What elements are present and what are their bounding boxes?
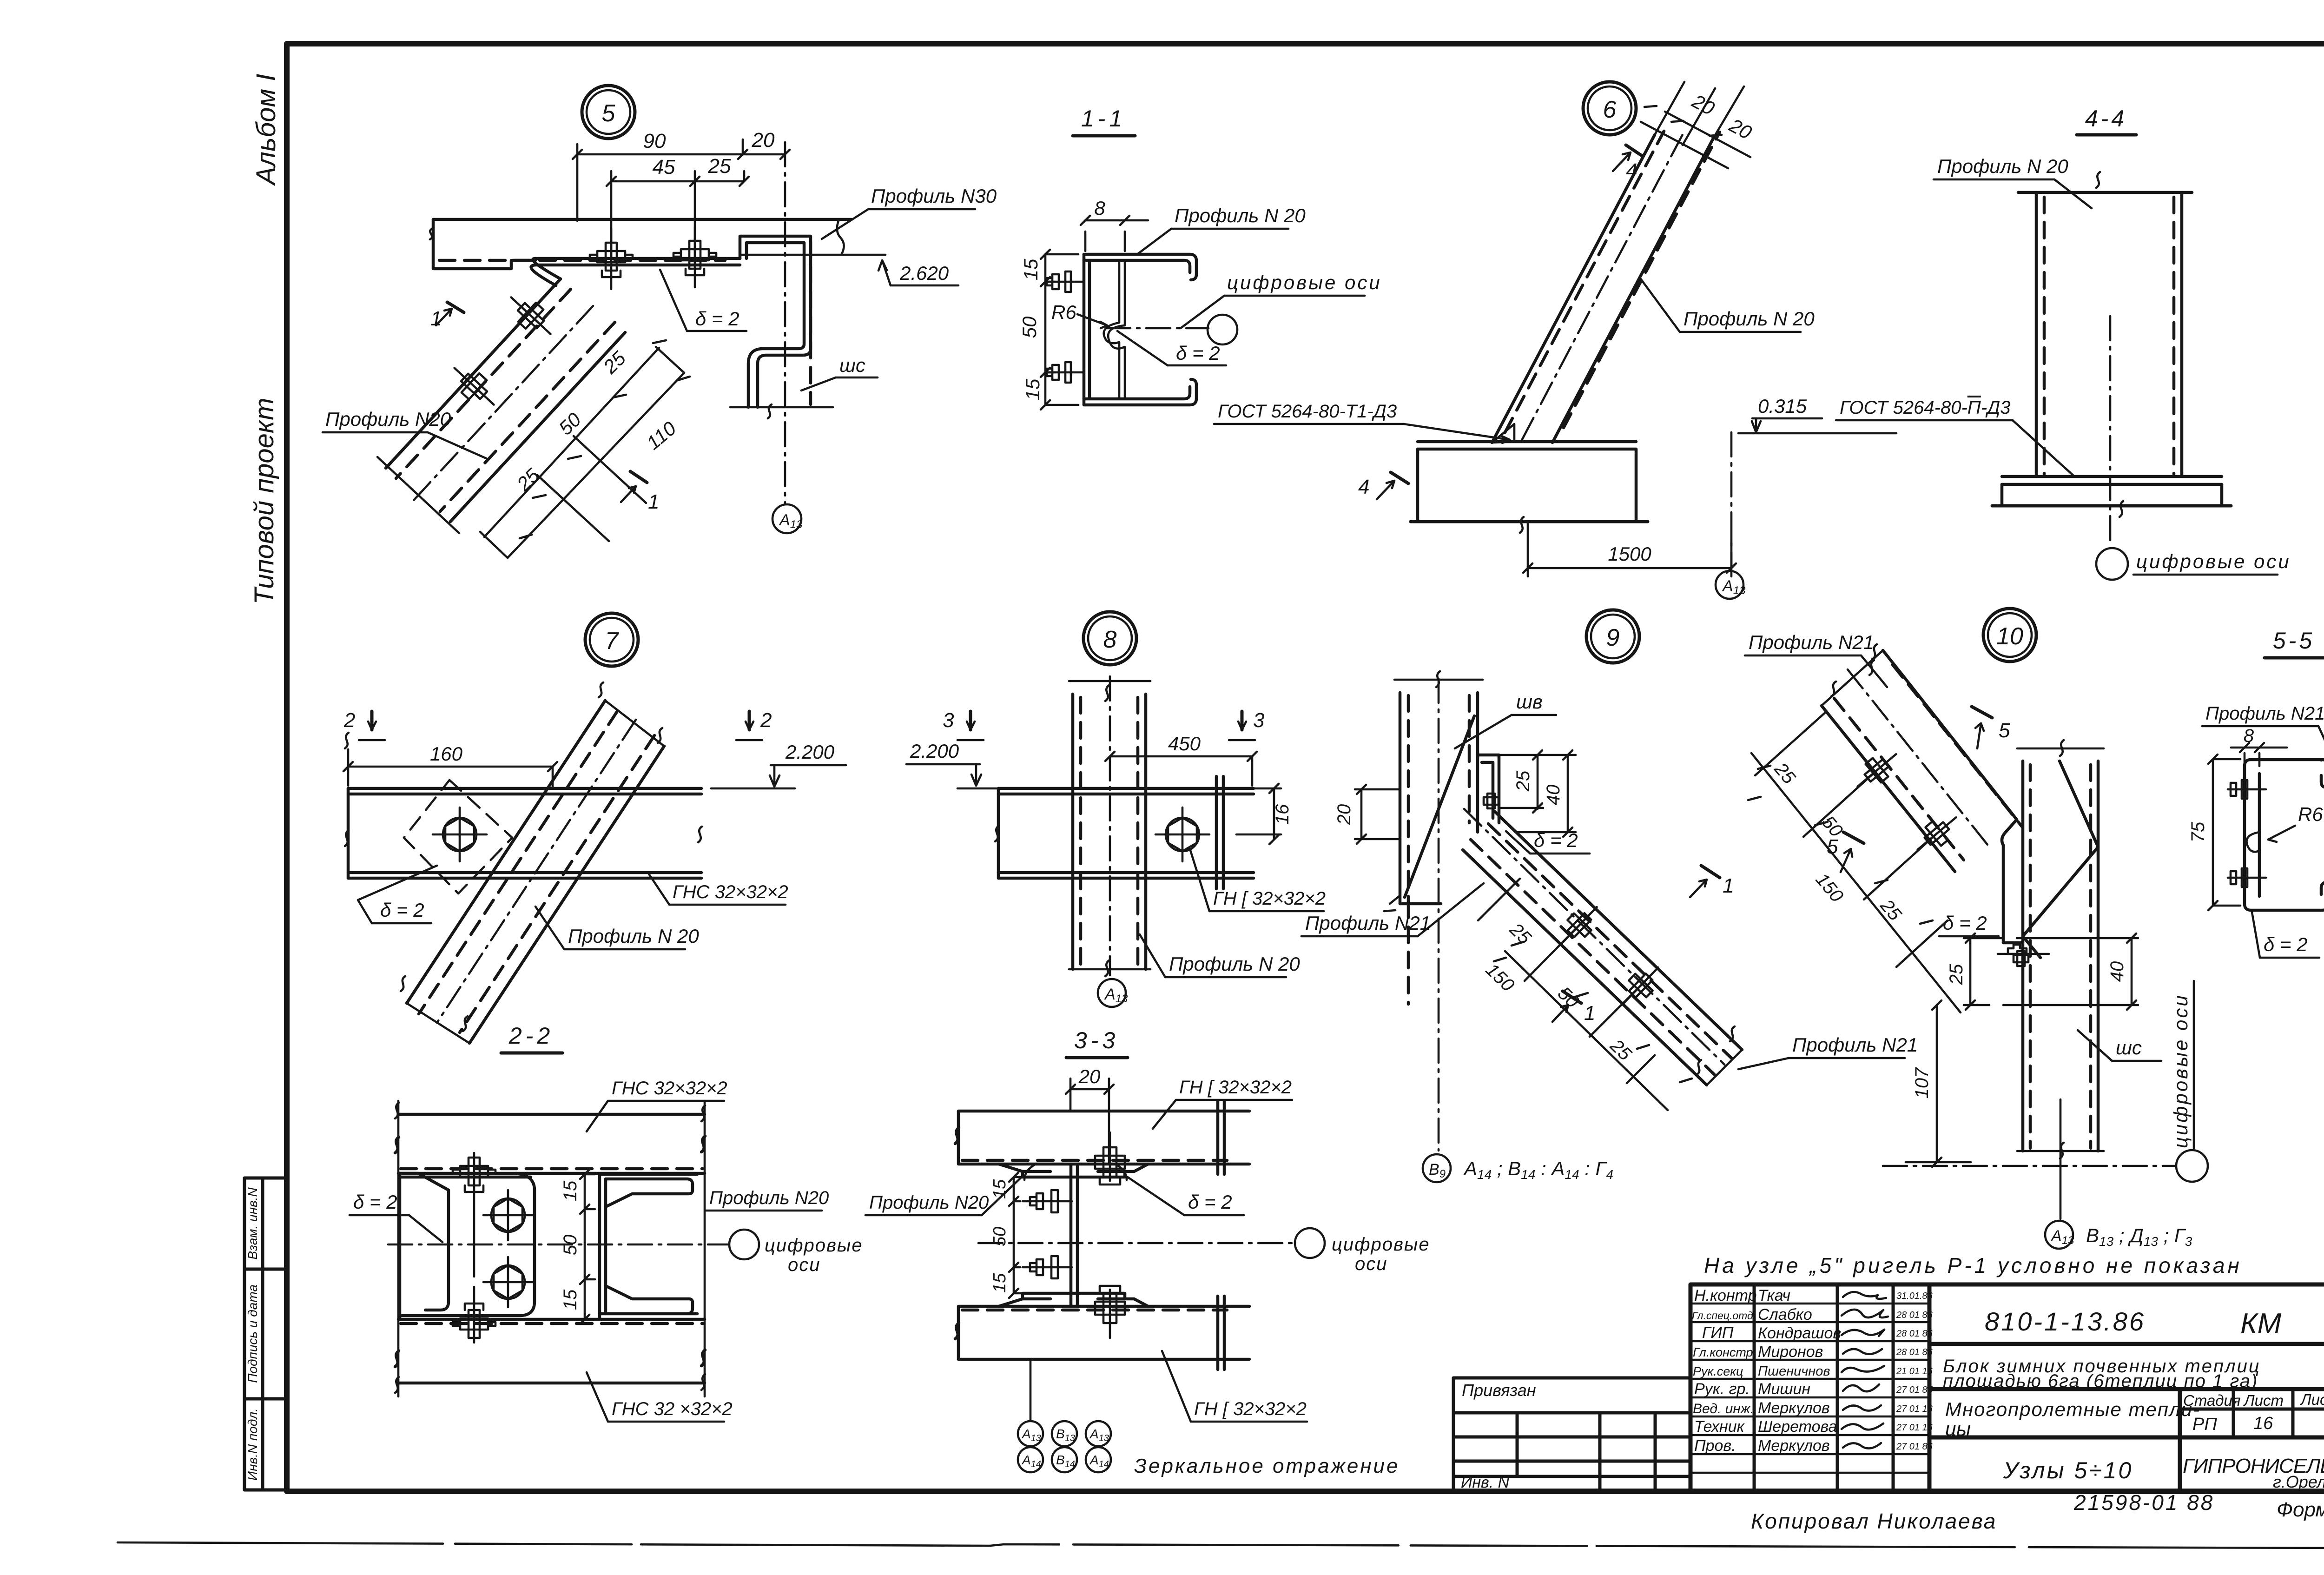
svg-text:Альбом I: Альбом I (251, 74, 281, 186)
svg-text:15: 15 (1022, 378, 1043, 400)
svg-text:3-3: 3-3 (1074, 1027, 1119, 1053)
svg-text:1: 1 (1584, 1002, 1595, 1025)
svg-text:5-5: 5-5 (2273, 628, 2315, 654)
svg-text:9: 9 (1606, 624, 1620, 651)
svg-text:16: 16 (2253, 1414, 2273, 1433)
inclined profile N20 crossing (detail7) (401, 682, 664, 1043)
section mark 3 left (957, 711, 984, 740)
svg-text:810-1-13.86: 810-1-13.86 (1985, 1307, 2146, 1336)
axis line and circle A13 (detail5) (784, 142, 786, 503)
svg-text:15: 15 (560, 1289, 581, 1310)
horizontal axis + plain circle (detail10) (1883, 1165, 2174, 1167)
svg-text:1-1: 1-1 (1081, 106, 1126, 132)
svg-text:Профиль N30: Профиль N30 (871, 185, 997, 207)
plan bolts top/bottom (3-3) (1095, 1132, 1125, 1185)
svg-text:КМ: КМ (2240, 1308, 2282, 1340)
svg-text:50: 50 (1018, 316, 1040, 338)
svg-text:Взам. инв.N: Взам. инв.N (245, 1187, 260, 1260)
svg-text:2.200: 2.200 (910, 740, 959, 762)
inclined strut profile N20 (377, 279, 625, 533)
svg-text:25: 25 (1946, 964, 1967, 985)
section mark 5 flags (detail10) (1972, 707, 1992, 748)
dim 75 (5-5) (2208, 754, 2240, 910)
svg-text:Мишин: Мишин (1758, 1380, 1810, 1398)
svg-text:Кондрашов: Кондрашов (1758, 1324, 1841, 1342)
svg-text:27 01 86: 27 01 86 (1896, 1442, 1933, 1452)
bottom member (2-2) (395, 1114, 705, 1383)
svg-text:27 01 16: 27 01 16 (1896, 1423, 1933, 1433)
dim 20 (detail9) (1355, 785, 1400, 844)
stadia table (2180, 1389, 2324, 1437)
svg-text:шс: шс (2116, 1037, 2142, 1059)
hex bolts (2-2) (483, 1190, 533, 1307)
middle I assembly (3-3) (999, 1164, 1148, 1306)
svg-text:δ = 2: δ = 2 (2264, 933, 2308, 955)
svg-text:Профиль N 20: Профиль N 20 (1684, 308, 1815, 330)
plan bolts (2-2) (453, 1153, 495, 1277)
bolt upper (1-1) (1047, 271, 1084, 292)
bracket plate at column (detail9) (1478, 755, 1499, 823)
svg-text:2-2: 2-2 (508, 1023, 554, 1049)
section mark 2 right (736, 711, 762, 740)
weld triangle at strut base (1492, 424, 1514, 443)
svg-text:20: 20 (1334, 804, 1354, 826)
bolt at bracket (1484, 794, 1499, 808)
svg-text:δ = 2: δ = 2 (1176, 342, 1220, 364)
svg-text:Пров.: Пров. (1694, 1437, 1736, 1455)
svg-text:5: 5 (1827, 835, 1838, 858)
section titles (501, 106, 2324, 1058)
svg-text:Меркулов: Меркулов (1758, 1399, 1830, 1417)
node circle 7 (585, 613, 638, 666)
svg-text:Копировал Николаева: Копировал Николаева (1751, 1509, 1997, 1533)
svg-text:Листов: Листов (2300, 1391, 2324, 1408)
svg-text:1500: 1500 (1608, 543, 1651, 565)
svg-text:3: 3 (1253, 709, 1265, 732)
svg-text:цифровые оси: цифровые оси (1227, 271, 1382, 293)
column profile N20 (4-4) (2018, 172, 2192, 476)
node circle 10 (1983, 609, 2036, 662)
channel профиль N21 (5-5 section) (2245, 760, 2324, 910)
svg-text:Шеретова: Шеретова (1758, 1418, 1837, 1436)
svg-text:Профиль N 20: Профиль N 20 (568, 925, 699, 947)
title block (1690, 1284, 2324, 1491)
svg-text:2.620: 2.620 (899, 262, 949, 284)
svg-text:Рук. гр.: Рук. гр. (1694, 1380, 1750, 1398)
svg-text:δ = 2: δ = 2 (1188, 1191, 1232, 1213)
dimension 8 (1081, 216, 1148, 251)
dim chain 25/50/150/25 (detail10) (1748, 711, 1961, 1012)
svg-text:25: 25 (708, 155, 731, 178)
section mark 1 upper (436, 302, 464, 325)
svg-text:шв: шв (1516, 691, 1543, 713)
left stamp boxes (244, 1178, 286, 1490)
dims 25 40 107 (detail10) (1906, 933, 2138, 1167)
svg-text:цы: цы (1945, 1418, 1971, 1440)
node circle 6 (1583, 82, 1636, 135)
svg-text:15: 15 (990, 1273, 1010, 1293)
bent plate S-curve into strut (531, 258, 561, 285)
node circle 9 (1586, 610, 1639, 663)
section mark 4 upper (1613, 145, 1643, 171)
vertical column (detail10) (2003, 740, 2104, 1158)
outer and main lines (1690, 1284, 2324, 1491)
svg-text:δ = 2: δ = 2 (380, 899, 424, 921)
svg-text:Миронов: Миронов (1758, 1343, 1823, 1361)
svg-text:цифровые оси: цифровые оси (2170, 993, 2192, 1148)
axis circles row A13 B13 A13 (1018, 1421, 1111, 1472)
channel profile N20 (section) (1084, 254, 1196, 405)
left margin vertical captions (249, 74, 281, 605)
svg-text:ГОСТ 5264-80-Т1-Д3: ГОСТ 5264-80-Т1-Д3 (1218, 401, 1397, 422)
svg-text:Ткач: Ткач (1758, 1287, 1790, 1304)
strut dim chain 25/50/25 (480, 340, 684, 558)
svg-text:δ = 2: δ = 2 (695, 308, 739, 330)
svg-text:5: 5 (602, 100, 616, 127)
dim 20 (3-3) (1066, 1079, 1114, 1162)
dims 15/50/15 (2-2) (580, 1170, 595, 1324)
svg-text:Лист: Лист (2243, 1392, 2284, 1409)
base plate (1411, 442, 1648, 533)
svg-text:δ = 2: δ = 2 (1534, 829, 1578, 851)
svg-text:цифровые: цифровые (765, 1235, 863, 1256)
svg-text:20: 20 (752, 129, 775, 152)
svg-text:Профиль N21: Профиль N21 (1749, 631, 1874, 653)
dim chain 25/150/50/25 (detail9) (1478, 879, 1692, 1110)
svg-text:Профиль N21: Профиль N21 (1792, 1034, 1918, 1056)
member bolts (detail9) (1553, 899, 1605, 952)
svg-text:R6: R6 (2298, 803, 2323, 825)
svg-text:Рук.секц: Рук.секц (1693, 1364, 1743, 1378)
svg-text:Зеркальное отражение: Зеркальное отражение (1134, 1455, 1400, 1477)
vertical column профиль N21 (detail9) (1394, 671, 1483, 1004)
svg-text:15: 15 (990, 1179, 1010, 1199)
svg-text:28 01 86: 28 01 86 (1896, 1310, 1933, 1320)
svg-text:8: 8 (2244, 726, 2254, 746)
hex bolt (detail8) (1155, 807, 1209, 861)
role/name/date texts (1692, 1287, 1841, 1455)
bolt on plate 2 (673, 227, 716, 287)
svg-text:R6: R6 (1051, 301, 1076, 323)
axis + circle (2-2) (388, 1244, 727, 1246)
svg-text:8: 8 (1103, 626, 1117, 653)
svg-text:6: 6 (1603, 96, 1617, 123)
svg-text:5: 5 (1999, 719, 2010, 742)
svg-text:107: 107 (1912, 1067, 1932, 1099)
svg-text:20: 20 (1078, 1065, 1101, 1087)
dashed gusset diamond (404, 780, 512, 893)
svg-text:10: 10 (1996, 623, 2023, 650)
svg-text:ГНС 32×32×2: ГНС 32×32×2 (673, 882, 788, 902)
svg-text:оси: оси (788, 1255, 821, 1275)
svg-text:Профиль N20: Профиль N20 (869, 1192, 989, 1213)
section mark 2 left (359, 711, 385, 740)
svg-text:цифровые: цифровые (1332, 1234, 1430, 1255)
svg-text:15: 15 (560, 1180, 581, 1201)
svg-text:δ = 2: δ = 2 (1943, 912, 1987, 934)
svg-text:ГИП: ГИП (1702, 1324, 1734, 1342)
horizontal member ГНС (detail7) (345, 733, 702, 878)
top member (2-2) (395, 1114, 705, 1173)
svg-text:Профиль N21: Профиль N21 (1305, 912, 1431, 934)
bolt lower (1-1) (1047, 362, 1084, 383)
svg-text:Слабко: Слабко (1758, 1306, 1812, 1324)
svg-text:27 01 85: 27 01 85 (1896, 1385, 1933, 1395)
signature table columns (1754, 1284, 1893, 1491)
svg-text:ГН [ 32×32×2: ГН [ 32×32×2 (1179, 1077, 1292, 1098)
svg-text:площадью 6га (6теплиц по 1 га): площадью 6га (6теплиц по 1 га) (1943, 1371, 2258, 1391)
left bent plate box (2-2) (400, 1173, 535, 1319)
svg-text:1: 1 (1723, 874, 1734, 897)
svg-text:г.Орел: г.Орел (2273, 1472, 2324, 1491)
member bolts (detail10) (1850, 745, 1904, 795)
svg-text:4: 4 (1358, 476, 1369, 498)
svg-text:Инв.N подл.: Инв.N подл. (245, 1408, 260, 1481)
svg-text:Профиль N 20: Профиль N 20 (1175, 205, 1306, 226)
right channel профиль N20 (2-2) (600, 1174, 697, 1319)
bottom captions (1751, 1490, 2324, 1533)
axis + circle A13 (detail6) (1730, 432, 1733, 566)
svg-text:ГНС 32×32×2: ГНС 32×32×2 (612, 1078, 727, 1099)
strut bolt 2 (445, 358, 502, 414)
svg-text:Профиль N20: Профиль N20 (325, 408, 451, 430)
dims 15/50/15 (3-3) (1009, 1172, 1064, 1298)
svg-text:Формат А2: Формат А2 (2277, 1498, 2324, 1521)
bolts left stack (3-3) (1023, 1190, 1072, 1212)
vertical line through circles (1030, 1359, 1032, 1421)
base plate (4-4) (1992, 476, 2231, 517)
dims 20 20 at strut top (1644, 82, 1750, 157)
svg-text:оси: оси (1355, 1254, 1388, 1274)
svg-text:Профиль N 20: Профиль N 20 (1937, 155, 2068, 177)
inclined member профиль N21 (detail9) (1463, 809, 1742, 1085)
svg-text:7: 7 (605, 628, 620, 655)
svg-text:2: 2 (760, 709, 772, 732)
svg-text:Техник: Техник (1694, 1418, 1745, 1436)
vertical column профиль N20 (detail8) (1069, 681, 1150, 976)
svg-text:450: 450 (1168, 733, 1201, 754)
svg-text:15: 15 (1020, 258, 1042, 280)
svg-text:90: 90 (643, 130, 666, 152)
svg-text:25: 25 (1513, 770, 1533, 792)
svg-text:28 01 86: 28 01 86 (1896, 1347, 1933, 1357)
axis drop to A13 circle (detail10) (2060, 1099, 2062, 1219)
svg-text:Инв. N: Инв. N (1461, 1474, 1510, 1491)
svg-text:Профиль N 20: Профиль N 20 (1169, 953, 1300, 975)
dim 1500 (1523, 522, 1736, 576)
axis + plain circle (4-4) (2109, 316, 2112, 547)
bottom member (3-3) (955, 1296, 1249, 1370)
svg-text:ГН [ 32×32×2: ГН [ 32×32×2 (1194, 1399, 1307, 1419)
svg-text:28 01 86: 28 01 86 (1896, 1329, 1933, 1339)
svg-text:Профиль N20: Профиль N20 (709, 1188, 829, 1208)
axis + circle (3-3) (978, 1242, 1292, 1244)
signatures squiggles (1842, 1292, 1888, 1448)
inclined strut profile N20 (detail6) (1492, 122, 1728, 443)
svg-text:40: 40 (1543, 785, 1564, 806)
svg-text:16: 16 (1272, 804, 1293, 825)
svg-text:шс: шс (839, 354, 865, 376)
svg-text:Пшеничнов: Пшеничнов (1758, 1364, 1830, 1379)
svg-text:160: 160 (430, 743, 463, 765)
svg-text:Меркулов: Меркулов (1758, 1437, 1830, 1455)
svg-text:27 01 16: 27 01 16 (1896, 1404, 1933, 1414)
top chord profile N30 (430, 219, 852, 269)
title block note (1704, 1253, 2242, 1277)
axis + circle (1-1) (1106, 327, 1208, 330)
attachment table (Привязан) (1453, 1378, 1690, 1491)
section mark 3 right (1229, 711, 1255, 740)
svg-text:3: 3 (943, 709, 954, 732)
svg-text:Узлы 5÷10: Узлы 5÷10 (2003, 1457, 2133, 1483)
hex bolt (detail7) (433, 807, 487, 861)
inclined member профиль N21 (detail10) (1822, 644, 2022, 943)
svg-text:Привязан: Привязан (1462, 1381, 1536, 1400)
dimension 45 and 25 (607, 171, 749, 263)
section mark 1 flags (detail9) (1690, 866, 1720, 897)
svg-text:Н.контр: Н.контр (1694, 1287, 1757, 1304)
section mark 4 lower (1377, 472, 1408, 499)
signature table rows (1690, 1304, 1929, 1473)
extension verticals (2-2) (398, 1101, 705, 1396)
node circle 5 (582, 86, 635, 139)
svg-text:31.01.86: 31.01.86 (1896, 1291, 1933, 1301)
vertical dims 15/50/15 (1041, 250, 1078, 410)
top member (3-3) (955, 1101, 1249, 1174)
svg-text:1: 1 (430, 307, 442, 330)
svg-text:45: 45 (653, 156, 675, 179)
svg-text:75: 75 (2188, 821, 2208, 842)
axis + circle A13 (detail8) (1109, 676, 1111, 975)
svg-text:Вед. инж.: Вед. инж. (1693, 1401, 1754, 1416)
bolts (5-5) (2228, 780, 2266, 799)
svg-text:Гл.констр: Гл.констр (1693, 1345, 1753, 1359)
svg-text:21598-01 88: 21598-01 88 (2073, 1490, 2214, 1515)
dim 8 (5-5) (2231, 743, 2287, 766)
svg-text:21 01 16: 21 01 16 (1896, 1366, 1933, 1376)
svg-text:0.315: 0.315 (1758, 395, 1807, 417)
svg-text:1: 1 (648, 490, 659, 513)
svg-text:Типовой проект: Типовой проект (249, 398, 279, 605)
svg-text:цифровые оси: цифровые оси (2136, 550, 2291, 572)
dim 160 (343, 749, 557, 788)
svg-text:Гл.спец.отд: Гл.спец.отд (1692, 1310, 1753, 1322)
horizontal member (detail8) (995, 776, 1254, 889)
svg-text:Многопролетные тепли-: Многопролетные тепли- (1945, 1398, 2200, 1420)
dimension 90 (573, 139, 790, 221)
axis + circle B9 (1438, 679, 1440, 1151)
svg-text:40: 40 (2107, 961, 2127, 982)
svg-text:На узле „5" ригель Р-1 усло: На узле „5" ригель Р-1 условно не показа… (1704, 1253, 2242, 1277)
шс bracket profile (730, 236, 833, 418)
svg-text:2: 2 (343, 709, 355, 732)
junction bolt (detail10) (1998, 945, 2049, 966)
section mark 1 lower (621, 471, 647, 502)
svg-text:ГНС 32 ×32×2: ГНС 32 ×32×2 (612, 1399, 733, 1419)
svg-text:2.200: 2.200 (785, 741, 835, 763)
bolt on plate 1 (590, 229, 633, 289)
node circle 8 (1083, 612, 1136, 665)
svg-text:4-4: 4-4 (2085, 106, 2127, 132)
svg-text:Подпись и дата: Подпись и дата (245, 1284, 260, 1383)
dim 450 (1105, 752, 1257, 786)
strut bolt 1 (502, 288, 559, 344)
svg-text:ГОСТ 5264-80-П-Д3: ГОСТ 5264-80-П-Д3 (1840, 397, 2010, 418)
svg-text:ГН [ 32×32×2: ГН [ 32×32×2 (1213, 888, 1326, 909)
svg-text:δ = 2: δ = 2 (353, 1191, 397, 1213)
svg-text:8: 8 (1094, 197, 1105, 219)
dim 16 (1236, 784, 1281, 844)
svg-text:Профиль N21: Профиль N21 (2205, 703, 2324, 724)
dims 25 40 (detail9) (1499, 750, 1576, 837)
